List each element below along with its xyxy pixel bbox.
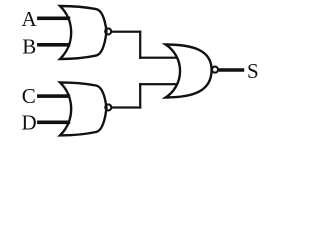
wire output S [219,68,245,72]
NOR gate U2 bubble [105,104,111,110]
svg-text:C: C [22,84,36,108]
wire U3 bottom input horizontal [139,83,178,85]
wire input A [37,17,70,21]
svg-text:S: S [247,59,259,83]
svg-text:B: B [22,35,36,59]
wire vertical rise from U2 to U3 bottom input [139,83,141,109]
NOR gate U3 bubble [212,67,218,73]
wire input B [37,43,70,47]
wire input D [37,121,70,125]
wire U2 output horizontal [111,106,141,108]
wire U1 output horizontal [111,31,141,33]
NOR gate U1 bubble [105,28,111,34]
NOR gate U2 body [60,82,107,135]
NOR gate U3 body [166,45,212,98]
NOR gate U1 body [60,6,107,59]
svg-text:D: D [22,110,37,134]
wire vertical drop from U1 to U3 top input [139,31,141,59]
wire input C [37,94,70,98]
wire U3 top input horizontal [139,57,178,59]
svg-text:A: A [22,7,38,31]
